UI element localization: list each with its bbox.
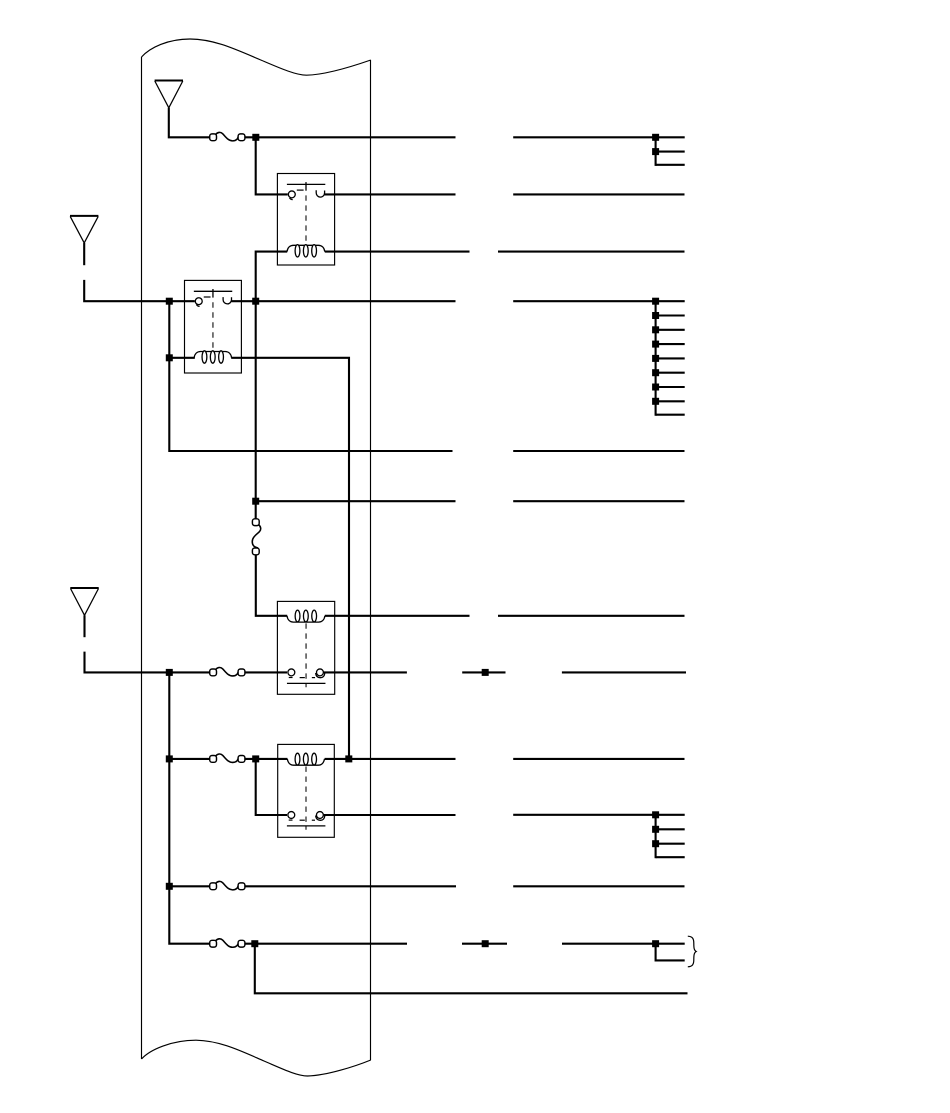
wire V2 drop from K1 coil node down to fuse F6 [255,301,257,519]
splice stub row y=387.0 [656,386,685,388]
wire antenna ANT3 feed upper part [83,615,85,637]
relay K3 actuator dashed link [305,623,307,687]
junction V2 at row y=501.2 [252,498,259,505]
junction splice y=151.6 [652,148,659,155]
wire relay K3 coil output right [325,615,470,617]
relay K1 case [277,174,334,266]
junction splice y=329.8 [652,326,659,333]
relay K4 actuator dashed link [305,767,307,830]
wire K4 coil row right segment [513,758,684,760]
splice stub row y=151.6 [656,151,685,153]
wire row y=943.7 right segment into pigtail [562,943,685,945]
relay K2 moving contact [223,297,231,304]
splice ladder top-right vertical [655,137,657,166]
relay K2 case [185,280,242,373]
splice stub row y=315.5 [656,314,685,316]
wire relay K1 coil left lead down to node on row4 [256,252,288,301]
junction bus at relay K4 coil row [166,755,173,762]
wire V5 drop from row y=943.7 to bottom row [255,944,688,994]
fuse F4 [210,881,245,889]
relay K2 contact bar [194,289,232,298]
junction bus at relay K2 coil row [166,354,173,361]
brace grouping pigtail pair [688,936,696,967]
junction row4 splice ladder top [652,298,659,305]
relay K4 contact bar [287,825,326,827]
relay K1 moving contact [316,190,324,197]
junction splice y=843.7 [652,840,659,847]
wire antenna ANT2 feed lower part and run to relay K2 [84,280,195,301]
junction row4 at harness bus [166,298,173,305]
splice stub row y=344.1 [656,343,685,345]
antenna ANT1 [155,81,183,108]
wire bus to fuse F4 [169,885,210,887]
relay K1 actuator dashed link [305,195,307,244]
relay K4 contact blade dashes [300,819,315,821]
wire K3 coil row right segment [498,615,685,617]
junction splice y=358.4 [652,355,659,362]
splice stub row y=329.8 [656,329,685,331]
relay K1 contact blade dash [297,189,304,191]
junction splice row ANT3 [482,669,489,676]
wire K4 contact row right segment [513,814,685,816]
wire fuse F2 to relay K3 contact [245,671,287,673]
splice stub row y=843.7 [656,843,685,845]
junction row4 at V2 [252,298,259,305]
splice ladder vertical y=815-858 [655,815,657,858]
junction K4 coil row at V3 terminus [345,755,352,762]
splice ladder vertical y=301-415 [655,301,657,416]
fuse F5 [210,939,245,947]
wire relay K1 contact output to connector end [324,193,456,195]
splice stub row y=358.4 [656,357,685,359]
wire antenna ANT3 feed lower part and run to fuse F2 [85,652,210,673]
wire antenna ANT1 feed down and right to fuse [169,108,210,138]
wire row1 fuse to left connector end [245,136,456,138]
relay K3 contact blade dashes [300,677,315,679]
wire row1 right segment [513,136,685,138]
junction row y=943.7 at V5 drop [251,940,258,947]
wire fuse F3 to relay K4 coil [245,758,288,760]
harness sheath right border [370,60,372,1060]
junction K4 coil row at V4 drop [252,755,259,762]
wire harness bus ANT2 segment with branch to row y=451 [169,301,452,451]
relay K1 contact bar [287,182,325,191]
relay K4 fixed contact [288,812,295,821]
wire relay K4 contact output [324,814,456,816]
junction splice y=387.0 [652,384,659,391]
junction row1 at vertical drop V1 [252,134,259,141]
junction row y=943.7 pigtail [652,940,659,947]
fuse F6 [252,519,260,555]
wire relay K3 contact output [324,671,407,673]
wire bus to fuse F3 [169,758,210,760]
relay K2 contact blade dash [204,296,211,298]
junction bus at row y=886.3 [166,883,173,890]
junction splice row y=943.7 [482,940,489,947]
junction splice y=315.5 [652,312,659,319]
harness sheath bottom torn edge [142,1040,371,1076]
junction splice y=372.7 [652,369,659,376]
relay K3 fixed contact [288,669,295,678]
splice stub row y=372.7 [656,372,685,374]
junction row1 splice ladder top [652,134,659,141]
harness sheath left border [141,57,143,1059]
junction row ANT3 at harness bus [166,669,173,676]
relay K2 coil [194,351,232,363]
wire row4 right segment [513,300,685,302]
wire fuse F5 to splice and stub [245,943,407,945]
wire relay K1 coil output right [325,251,470,253]
junction K4 row splice ladder top [652,811,659,818]
relay K1 coil [287,245,325,257]
fuse F2 [210,667,245,675]
fuse F1 [210,132,245,140]
wire row y=886.3 to connector end [245,885,456,887]
wire row y=943.7 middle segment with splice [462,943,507,945]
wire row y=451 right segment [513,450,684,452]
wire row ANT3 right segment [562,671,686,673]
splice stub row y=415.7 [656,414,685,416]
wire V1 drop from row1 into relay K1 contact [256,137,288,194]
wire row2 right segment [513,193,684,195]
relay K4 case [278,744,335,837]
harness sheath top torn edge [142,39,371,75]
relay K4 coil [287,753,324,765]
splice stub row y=858.2 [656,856,685,858]
wire row ANT3 middle segment with splice [462,671,505,673]
fuse F3 [210,754,245,762]
junction splice y=344.1 [652,341,659,348]
wire row3 right segment [498,251,685,253]
wire row y=501.2 left segment [256,500,456,502]
wire relay K2 contact output to connector end [231,300,455,302]
relay K2 fixed contact [195,298,202,307]
wire relay K2 coil output right then down V3 [231,358,349,759]
wire relay K4 coil output to connector end [325,758,456,760]
wire V2 below fuse into relay K3 coil [256,555,287,616]
splice stub row y=829.3 [656,828,685,830]
relay K3 contact bar [287,682,326,684]
junction splice y=829.3 [652,826,659,833]
wire pigtail loop down [656,944,685,961]
relay K1 fixed contact [288,191,295,200]
relay K3 case [277,601,334,694]
wire row y=501.2 right segment [513,500,684,502]
splice stub row y=165.9 [656,164,685,166]
wire harness bus ANT3 vertical segment [169,672,210,943]
antenna ANT3 [70,588,98,615]
relay K3 moving contact [316,669,325,678]
wire row y=886.3 right segment [513,885,684,887]
wire V4 drop into relay K4 contact [256,759,287,815]
wire antenna ANT2 feed upper part [83,243,85,265]
junction splice y=401.3 [652,398,659,405]
wire relay K2 coil left lead [169,357,195,359]
relay K2 actuator dashed link [212,302,214,350]
relay K3 coil [287,610,325,622]
relay K4 moving contact [316,812,325,821]
splice stub row y=401.3 [656,400,685,402]
antenna ANT2 [70,216,98,243]
